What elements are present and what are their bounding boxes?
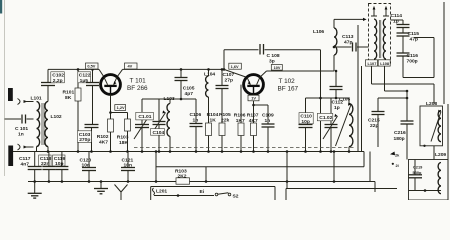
svg-text:R106: R106 <box>234 112 246 118</box>
svg-text:L103: L103 <box>164 96 175 102</box>
svg-text:C116: C116 <box>407 53 419 59</box>
svg-text:Ei: Ei <box>200 189 205 195</box>
svg-text:C 101: C 101 <box>15 126 28 132</box>
svg-text:C120: C120 <box>80 157 92 163</box>
svg-text:C106: C106 <box>190 112 202 118</box>
svg-text:C113: C113 <box>342 34 354 40</box>
svg-text:C104: C104 <box>153 130 165 136</box>
svg-text:47p: 47p <box>344 39 352 45</box>
svg-text:L102: L102 <box>51 114 62 120</box>
svg-text:180p: 180p <box>394 136 405 142</box>
svg-text:L107: L107 <box>368 61 377 66</box>
svg-text:C 108: C 108 <box>267 53 280 59</box>
svg-text:C109: C109 <box>262 112 274 118</box>
svg-text:C107: C107 <box>223 72 235 78</box>
svg-text:L209: L209 <box>435 152 446 158</box>
svg-text:C105: C105 <box>183 85 195 91</box>
svg-text:R101: R101 <box>63 89 75 95</box>
svg-text:L108: L108 <box>380 61 390 66</box>
svg-text:1,6V: 1,6V <box>231 64 239 69</box>
svg-text:C122: C122 <box>79 73 91 79</box>
svg-text:2,2p: 2,2p <box>53 78 63 84</box>
svg-text:1K7: 1K7 <box>236 118 245 124</box>
svg-text:C1.01: C1.01 <box>138 114 151 120</box>
svg-text:4K7: 4K7 <box>99 140 108 146</box>
svg-text:2l: 2l <box>396 163 399 168</box>
svg-text:C102: C102 <box>52 73 64 79</box>
svg-text:C216: C216 <box>394 130 406 136</box>
svg-text:1K: 1K <box>210 118 217 124</box>
svg-text:C118: C118 <box>40 156 52 162</box>
svg-text:L106: L106 <box>313 29 324 35</box>
svg-text:BF 266: BF 266 <box>127 85 148 92</box>
svg-text:1n: 1n <box>18 132 24 138</box>
svg-text:C121: C121 <box>122 157 134 163</box>
svg-text:R105: R105 <box>219 112 231 118</box>
svg-text:C114: C114 <box>391 13 403 19</box>
svg-text:700p: 700p <box>407 59 418 65</box>
svg-text:R102: R102 <box>97 134 109 140</box>
svg-text:C1.02: C1.02 <box>319 115 332 121</box>
svg-text:C119: C119 <box>54 156 66 162</box>
svg-text:1,2V: 1,2V <box>117 105 125 110</box>
svg-text:4n7: 4n7 <box>21 161 30 167</box>
svg-text:3p: 3p <box>269 59 275 65</box>
svg-text:R104: R104 <box>207 112 219 118</box>
svg-text:1p: 1p <box>393 18 399 24</box>
svg-text:R103: R103 <box>117 135 129 141</box>
svg-text:580p: 580p <box>413 170 422 175</box>
svg-text:4V: 4V <box>128 64 133 69</box>
svg-text:1p: 1p <box>334 105 340 111</box>
svg-text:S2: S2 <box>233 193 239 199</box>
svg-text:L101: L101 <box>31 96 42 102</box>
svg-text:0,5V: 0,5V <box>87 64 95 69</box>
svg-text:18K: 18K <box>119 140 128 146</box>
svg-text:T 101: T 101 <box>130 78 147 85</box>
svg-text:R107: R107 <box>247 112 259 118</box>
svg-text:L208: L208 <box>426 101 437 107</box>
svg-text:1n: 1n <box>193 118 199 124</box>
svg-text:C103: C103 <box>79 132 91 138</box>
svg-text:8K: 8K <box>65 95 72 101</box>
svg-text:C215: C215 <box>368 117 380 123</box>
svg-text:BF 167: BF 167 <box>278 85 299 92</box>
svg-text:C117: C117 <box>19 156 31 162</box>
svg-text:C115: C115 <box>408 31 420 37</box>
svg-text:27p: 27p <box>225 78 233 84</box>
svg-text:22k: 22k <box>221 118 229 124</box>
svg-text:L201: L201 <box>156 188 167 194</box>
svg-text:270p: 270p <box>79 137 90 143</box>
svg-text:C110: C110 <box>300 114 312 120</box>
svg-text:4K7: 4K7 <box>249 118 258 124</box>
svg-text:1n: 1n <box>265 118 271 124</box>
svg-text:10V: 10V <box>274 65 281 70</box>
svg-text:10p: 10p <box>301 119 309 125</box>
svg-text:4p7: 4p7 <box>185 91 194 97</box>
svg-text:2K2: 2K2 <box>178 173 187 179</box>
svg-text:C112: C112 <box>332 100 344 106</box>
svg-text:22p: 22p <box>370 123 378 129</box>
svg-text:C219: C219 <box>413 164 423 169</box>
svg-text:T 102: T 102 <box>279 78 296 85</box>
svg-text:1V: 1V <box>251 96 256 101</box>
